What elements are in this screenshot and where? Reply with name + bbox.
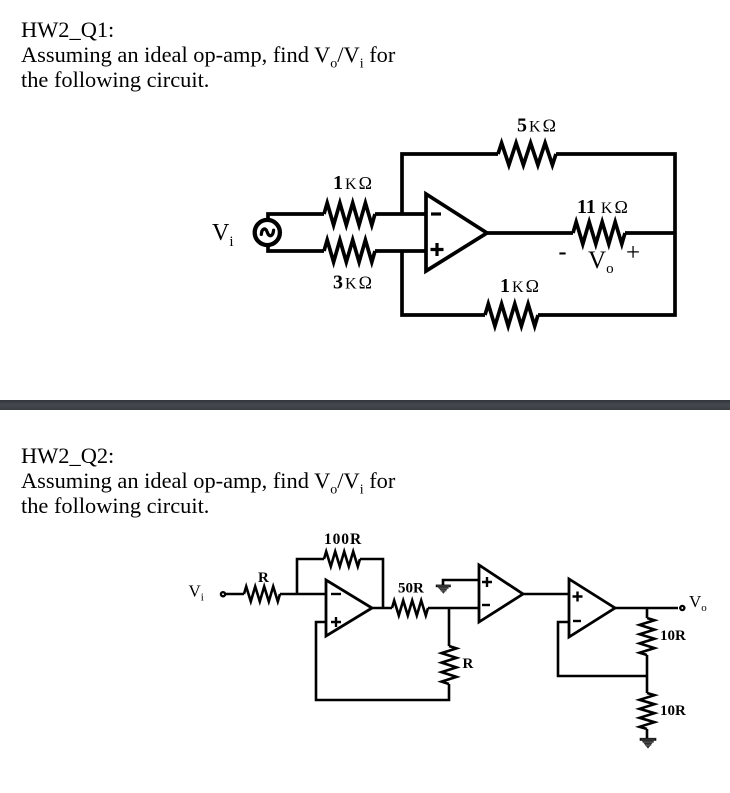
svg-text:3KΩ: 3KΩ [333,272,372,294]
svg-text:100R: 100R [324,531,362,548]
svg-text:1KΩ: 1KΩ [333,172,372,194]
svg-text:Vo: Vo [689,592,707,614]
svg-text:Vo: Vo [588,247,614,277]
svg-text:R: R [258,570,269,586]
svg-text:50R: 50R [398,581,424,597]
svg-text:10R: 10R [660,628,686,644]
svg-text:R: R [463,656,474,672]
svg-text:1KΩ: 1KΩ [500,275,539,297]
svg-text:5KΩ: 5KΩ [517,115,556,137]
svg-text:11KΩ: 11KΩ [577,196,628,218]
svg-text:-: - [559,239,567,265]
svg-text:Vi: Vi [189,582,204,604]
svg-text:Vi: Vi [212,220,234,250]
svg-text:10R: 10R [660,703,686,719]
svg-text:+: + [626,240,640,267]
